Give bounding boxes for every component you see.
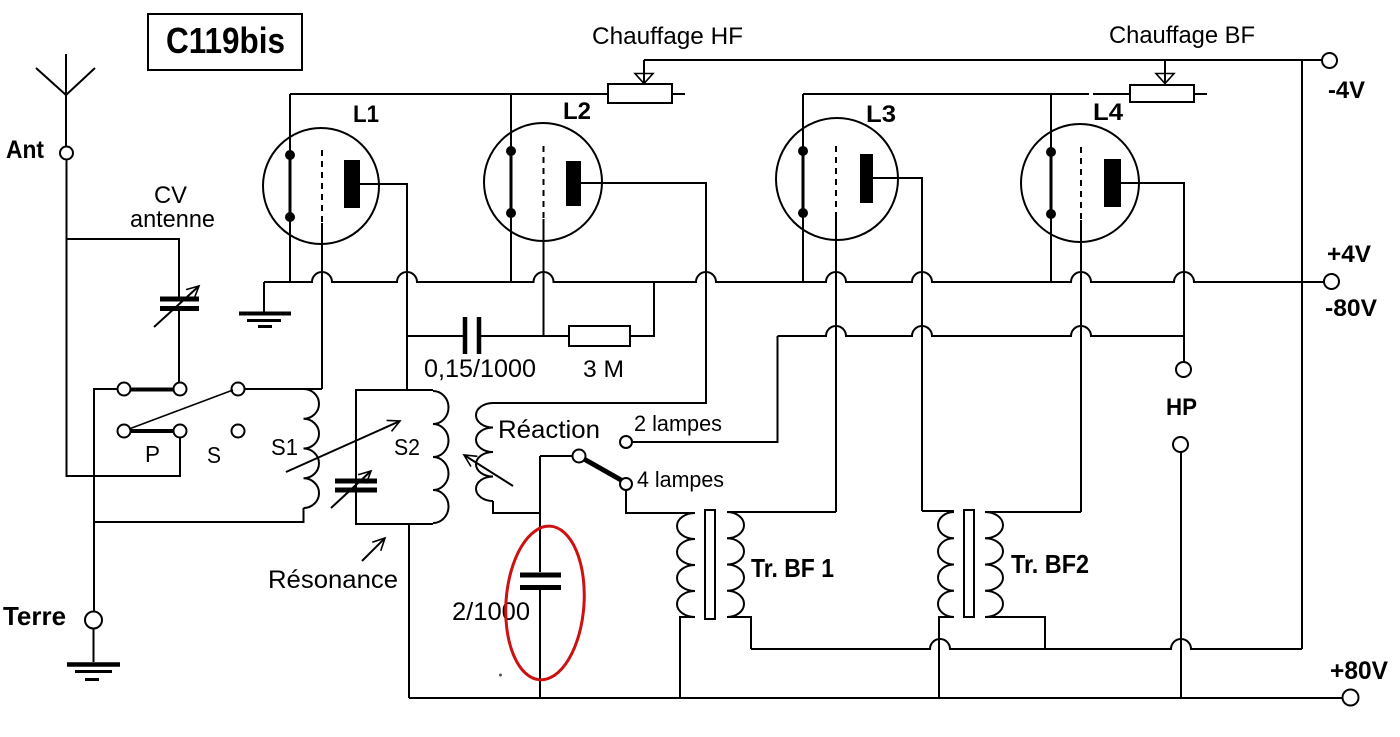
wire heater BF line [803, 93, 1130, 95]
node HP terminal lower [1173, 437, 1188, 452]
ground Terre [93, 629, 95, 663]
node 2 lampes [620, 436, 632, 448]
resistor Chauffage HF rheostat [608, 84, 672, 103]
wire L2 grid down [543, 219, 545, 336]
wire L3 anode to Tr.BF2 [873, 178, 922, 511]
capacitor 2/1000 [539, 456, 541, 572]
svg-text:Tr. BF2: Tr. BF2 [1011, 549, 1089, 579]
switch blade 4 lampes [584, 459, 621, 480]
wire switch left to ground line [94, 389, 118, 611]
wire L3 filament bottom [802, 210, 804, 282]
transformer Tr. BF 1 core [705, 510, 715, 619]
switch 2/4 lampes common [540, 455, 573, 457]
transformer Tr. BF 1 primary [677, 513, 695, 617]
svg-text:-80V: -80V [1325, 295, 1377, 322]
svg-text:+80V: +80V [1330, 657, 1388, 685]
wire L1 grid down to switch [321, 223, 323, 389]
vacuum tube L4 [1021, 99, 1139, 242]
switch blade [129, 390, 233, 429]
inductor Reaction [476, 403, 493, 501]
svg-text:S2: S2 [394, 434, 420, 460]
svg-text:Tr. BF 1: Tr. BF 1 [751, 553, 834, 583]
node -4V terminal [1322, 53, 1337, 68]
svg-text:S: S [207, 442, 221, 468]
svg-text:Chauffage BF: Chauffage BF [1109, 22, 1255, 49]
wire switch top row right to S1 top [245, 388, 323, 390]
svg-text:Réaction: Réaction [498, 416, 600, 444]
wire +80V bus [409, 697, 1343, 699]
svg-text:4 lampes: 4 lampes [637, 467, 724, 492]
svg-text:L4: L4 [1093, 99, 1124, 126]
wire L1 filament top [289, 94, 291, 155]
wire HP down to +80V bus [1180, 452, 1182, 698]
inductor S2 with frame [356, 390, 433, 524]
svg-text:L3: L3 [866, 101, 896, 128]
wire +4V bus [264, 272, 1324, 282]
svg-text:3 M: 3 M [583, 356, 624, 383]
antenna symbol [36, 54, 95, 147]
arrow variometer S1-S2 [286, 421, 400, 472]
wire L4 filament bottom [1050, 214, 1052, 282]
svg-text:P: P [145, 441, 160, 467]
capacitor CV antenne [160, 299, 199, 309]
svg-text:Ant: Ant [6, 136, 45, 164]
wire Tr.BF1 secondary return to -4V [751, 639, 1302, 649]
transformer Tr. BF2 secondary [985, 512, 1003, 617]
stray dot [499, 674, 502, 677]
transformer Tr. BF2 core [964, 510, 974, 617]
wire L4 grid down to Tr.BF2 [1080, 220, 1082, 512]
wire L1 anode [360, 184, 407, 390]
wire -4V top line [644, 59, 1322, 61]
capacitor 0,15/1000 [407, 335, 463, 337]
wire S1 bottom to ground line [94, 508, 304, 522]
wire 2 lampes to HP line [632, 336, 778, 442]
wire S2 bottom to +80V bus [408, 524, 410, 698]
switch P/S contacts [118, 383, 131, 396]
svg-text:S1: S1 [271, 434, 298, 460]
wire 2 lampes bus to HP [778, 326, 1185, 336]
svg-text:Résonance: Résonance [268, 566, 398, 594]
wire 4 lampes to Tr.BF1 [626, 490, 695, 513]
vacuum tube L2 [484, 98, 602, 241]
ground chassis (bus left end) [263, 282, 265, 312]
svg-text:antenne: antenne [130, 206, 215, 233]
title box C119bis [148, 14, 302, 70]
wire L2 filament bottom [510, 213, 512, 282]
svg-text:Terre: Terre [3, 601, 66, 631]
wire L1 filament bottom to bus [289, 217, 291, 282]
svg-text:-4V: -4V [1328, 77, 1365, 104]
capacitor resonance (in S2) [335, 481, 377, 490]
wire L2 anode to reaction coil [493, 183, 706, 403]
svg-text:2/1000: 2/1000 [452, 598, 530, 626]
svg-text:Chauffage HF: Chauffage HF [592, 23, 743, 50]
wire heater HF line [290, 93, 608, 95]
node +80V terminal [1343, 690, 1359, 706]
switch P link bars [131, 390, 173, 432]
svg-text:L1: L1 [353, 101, 379, 128]
resistor 3M [569, 326, 630, 346]
node +4V terminal [1324, 274, 1339, 289]
svg-text:+4V: +4V [1327, 241, 1371, 268]
transformer Tr. BF 1 secondary [727, 512, 744, 617]
node Ant terminal [60, 147, 73, 160]
transformer Tr. BF2 primary [922, 510, 954, 512]
wire antenna down [67, 160, 181, 477]
arrow Resonance label pointer [362, 538, 385, 561]
wire L4 anode to HP [1121, 183, 1184, 362]
node Terre terminal [85, 612, 102, 629]
wire L2 filament top [510, 94, 512, 151]
red highlight ellipse [501, 523, 590, 682]
wire L4 filament top [1050, 94, 1052, 152]
svg-text:CV: CV [154, 182, 187, 209]
svg-text:2 lampes: 2 lampes [634, 411, 722, 436]
svg-text:HP: HP [1166, 394, 1197, 421]
inductor S1 [304, 389, 320, 508]
svg-text:C119bis: C119bis [166, 20, 285, 61]
svg-text:L2: L2 [563, 98, 591, 125]
wire antenna to CV branch [67, 239, 180, 297]
resistor Chauffage BF rheostat [1130, 85, 1194, 102]
wire L3 grid down to Tr.BF1 [835, 216, 837, 512]
svg-text:0,15/1000: 0,15/1000 [424, 355, 536, 383]
node 4 lampes [620, 478, 632, 490]
wire right vertical -4V [1301, 60, 1303, 649]
vacuum tube L1 [263, 101, 379, 244]
node HP terminal upper [1176, 362, 1191, 377]
vacuum tube L3 [776, 101, 898, 240]
wire L3 filament top [802, 94, 804, 148]
